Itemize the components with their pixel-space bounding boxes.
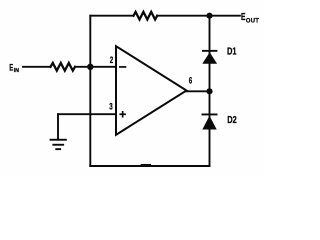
- wire: op-amp pin 6 output to diode node: [187, 90, 210, 92]
- op-amp inverting input minus sign: [119, 66, 126, 68]
- wire: left vertical (summing junction bus, top rail to bottom rail): [89, 16, 91, 166]
- svg-text:2: 2: [110, 55, 114, 66]
- node label EIN: [9, 62, 19, 74]
- label D2: [227, 114, 237, 125]
- pin 6 label: [189, 75, 193, 86]
- svg-text:6: 6: [189, 75, 193, 86]
- wire: summing junction to op-amp pin 2: [90, 66, 115, 68]
- op-amp U1 triangle: [116, 46, 187, 135]
- diode D2 (triangle, pointing up): [202, 116, 216, 130]
- ground symbol: [50, 139, 67, 150]
- wire: bottom rail thickened spot (scan mark): [141, 164, 150, 166]
- node: pin 6 junction dot: [206, 88, 212, 94]
- op-amp non-inverting input plus sign: [119, 111, 126, 118]
- node: summing junction dot: [87, 64, 93, 70]
- wire: ground drop: [57, 114, 59, 139]
- resistor (feedback, top rail): [134, 12, 158, 20]
- diode D2 (cathode bar): [202, 114, 218, 116]
- pin 2 label: [110, 55, 114, 66]
- pin 3 label: [109, 101, 113, 112]
- svg-text:E: E: [9, 62, 13, 73]
- node: EOUT junction dot: [206, 13, 212, 19]
- wire: input resistor to summing junction: [75, 66, 90, 68]
- wire: top rail left segment (summing junction to feedback resistor): [90, 15, 133, 17]
- wire: ground to op-amp pin 3 (crossover at summing bus, no connection): [58, 113, 116, 115]
- svg-text:D1: D1: [227, 45, 237, 56]
- svg-text:D2: D2: [227, 114, 237, 125]
- svg-text:OUT: OUT: [246, 17, 259, 24]
- wire: right vertical (EOUT node through D1, node 6, D2 to bottom rail): [209, 16, 211, 166]
- resistor (input): [51, 63, 76, 71]
- wire: bottom rail: [90, 165, 209, 167]
- wire: EIN input segment: [23, 66, 51, 68]
- node label EOUT: [241, 11, 259, 25]
- svg-text:3: 3: [109, 101, 113, 112]
- diode D1 (triangle, pointing up): [202, 52, 217, 64]
- svg-text:IN: IN: [14, 68, 19, 74]
- label D1: [227, 45, 237, 56]
- diode D1 (cathode bar): [202, 50, 217, 52]
- wire: top rail right segment (feedback resistor to EOUT node): [157, 15, 240, 17]
- svg-text:E: E: [241, 11, 246, 23]
